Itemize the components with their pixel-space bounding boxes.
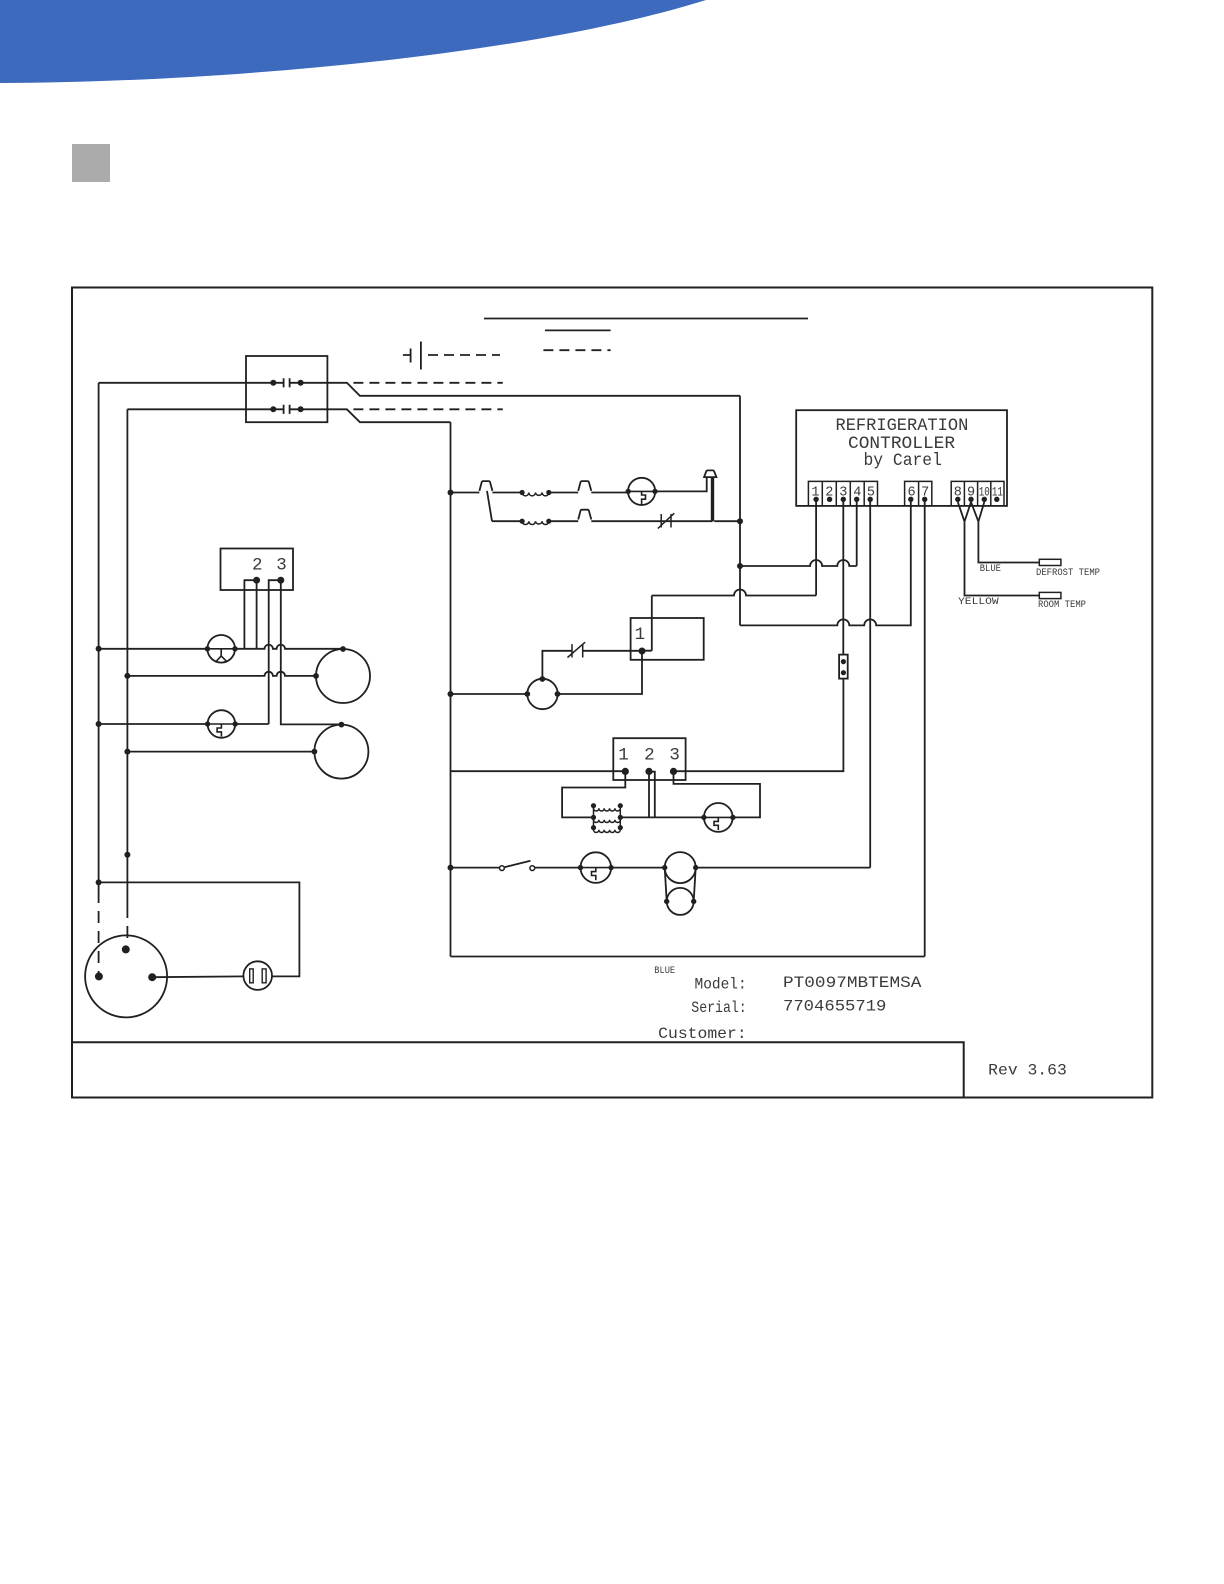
wire pin 9 to sensor V right: [971, 502, 978, 522]
wire from terminal 2 left jog: [244, 580, 256, 649]
wire coil box to pin 1 with hop: [652, 590, 816, 596]
evaporator fan motor circle: [316, 649, 370, 703]
node L1 buzzer tap: [96, 879, 102, 885]
wire pin 7 riser top: [924, 499, 926, 506]
node klixon 3 left: [701, 815, 706, 820]
bus L2 left vertical: [126, 409, 128, 906]
node compressor run left: [662, 865, 667, 870]
dashed generator line 2: [353, 408, 502, 410]
node contact K2 left: [270, 406, 276, 412]
svg-text:by Carel: by Carel: [864, 451, 942, 471]
svg-text:2: 2: [825, 485, 833, 500]
svg-text:Serial:: Serial:: [691, 999, 746, 1017]
svg-text:7704655719: 7704655719: [783, 997, 886, 1015]
bus vertical right: [739, 396, 741, 626]
svg-text:3: 3: [839, 485, 847, 500]
wire block terminal 1 to transformer: [562, 771, 625, 817]
wire blue sensor run: [978, 522, 1039, 563]
node xfmr mid left: [591, 815, 596, 820]
svg-text:BLUE: BLUE: [980, 564, 1001, 575]
node plug prong left: [95, 972, 103, 980]
service switch pole right: [530, 866, 535, 871]
svg-text:Model:: Model:: [695, 975, 747, 993]
svg-text:PT0097MBTEMSA: PT0097MBTEMSA: [783, 974, 922, 992]
node xfmr top right: [618, 803, 623, 808]
node L2 fan1 tap: [124, 673, 130, 679]
klixon 2 internal symbol: [581, 868, 610, 881]
node rung 2 bus junction: [737, 518, 743, 524]
node L2 cord joint: [124, 852, 130, 858]
wire defrost thermostat to NC contact: [583, 650, 642, 652]
terminal clip F3: [578, 510, 591, 520]
node xfmr bottom right: [618, 825, 623, 830]
klixon 1 internal symbol: [208, 724, 234, 737]
node coil terminal: [639, 648, 646, 655]
klixon protector circle 2: [581, 852, 612, 883]
wire from terminal 3 down to fan 2: [281, 580, 342, 724]
node pin 5: [868, 497, 873, 502]
wire bus to pin 6 with hops: [740, 499, 911, 625]
svg-text:1: 1: [635, 625, 646, 645]
refrigeration controller box: [796, 410, 1007, 506]
svg-text:1: 1: [618, 746, 629, 766]
wire klixon 1 to terminal 3 riser: [235, 723, 269, 725]
defrost termination contact NC: [658, 513, 675, 528]
wire block terminal 3 to klixon 3: [674, 771, 761, 817]
node klixon 2 left: [578, 865, 583, 870]
header swoosh: [0, 0, 706, 83]
node pin 1: [813, 497, 818, 502]
service switch blade: [504, 861, 530, 868]
wire pin 5 riser with hop: [869, 499, 871, 867]
wire motor F to plug: [655, 478, 707, 492]
klixon protector circle 1: [208, 710, 236, 738]
contact NC defrost: [568, 642, 586, 657]
inductor coil rung 2: [522, 521, 549, 524]
svg-text:11: 11: [992, 484, 1003, 499]
compressor start circle: [667, 888, 694, 915]
svg-text:DEFROST TEMP: DEFROST TEMP: [1036, 568, 1100, 579]
wire start winding right link: [694, 868, 696, 902]
overload protector circle: [207, 635, 235, 663]
node klixon 1 right: [233, 721, 238, 726]
compressor motor run circle: [665, 852, 696, 883]
wire pin 1 riser: [815, 499, 817, 595]
wire fuse to terminal3 of block: [674, 679, 844, 772]
node L2 fan2 tap: [124, 749, 130, 755]
wire clip 3 to defrost contact: [591, 520, 712, 522]
node compressor start left: [664, 899, 669, 904]
svg-text:Customer:: Customer:: [658, 1025, 747, 1043]
contact K1 upper: [273, 378, 300, 387]
top reference line short: [545, 329, 611, 331]
bus L1 dashed cord segment: [98, 891, 100, 973]
node compressor run right: [693, 865, 698, 870]
node plug prong top: [122, 945, 130, 953]
node coil 2 right: [546, 519, 551, 524]
room temp sensor body: [1039, 592, 1061, 598]
fuse node lower: [841, 670, 846, 675]
contact K2 lower: [273, 405, 300, 414]
svg-text:5: 5: [867, 485, 875, 500]
wire transformer to klixon 3: [620, 816, 704, 818]
wire L1 bus to overload: [99, 648, 208, 650]
wire pin 10 to sensor V: [978, 502, 984, 522]
wire block terminal 2 down: [648, 771, 650, 817]
node motor F right: [652, 489, 657, 494]
svg-text:ROOM TEMP: ROOM TEMP: [1038, 600, 1086, 611]
node pin 6: [908, 497, 913, 502]
wire pin 3 riser: [842, 499, 844, 654]
node klixon 1 left: [205, 721, 210, 726]
node overload right: [232, 646, 237, 651]
dashed field wiring line top right: [543, 349, 610, 351]
node block terminal 1: [622, 768, 629, 775]
bus L2 dashed cord segment: [126, 906, 128, 946]
node thermostat top: [540, 676, 546, 682]
node contact K2 right: [298, 406, 304, 412]
node xfmr top left: [591, 803, 596, 808]
dashed cord line: [428, 354, 500, 356]
dashed generator line 1: [353, 382, 502, 384]
node coil 2 left: [520, 519, 525, 524]
wire contact K2 to inner loop: [301, 409, 451, 422]
node xfmr bottom left: [591, 825, 596, 830]
inner loop right edge terminal 7 riser: [924, 506, 926, 957]
node fan 1 top: [340, 646, 346, 652]
wire coil to clip 2: [549, 492, 578, 494]
wire clip 2 to fan motor F: [591, 492, 628, 494]
terminal clip F1: [479, 481, 492, 491]
node bus 566 junction: [737, 563, 743, 569]
node pin 11: [994, 497, 999, 502]
wire L2 bus to fan 1 with hops: [127, 672, 316, 676]
wire compressor to pin 5 riser: [696, 867, 871, 869]
fuse indicator on pin 3 line: [839, 655, 848, 679]
title block divider: [72, 1042, 964, 1097]
buzzer element right: [262, 969, 266, 983]
node terminal 2: [253, 577, 260, 584]
klixon 3 internal symbol: [705, 817, 732, 830]
wire L2 to transfer switch: [127, 408, 273, 410]
svg-text:8: 8: [954, 485, 962, 500]
terminal box 2-3: [221, 549, 294, 591]
transfer switch box: [246, 356, 327, 422]
node pin 8: [955, 497, 960, 502]
svg-text:YELLOW: YELLOW: [958, 597, 999, 608]
node terminal 3: [277, 577, 284, 584]
wire L1 bus to klixon 1: [99, 723, 208, 725]
power cord plug symbol: [403, 342, 421, 370]
node coil 1 left: [520, 490, 525, 495]
node compressor rung tap: [448, 865, 454, 871]
node xfmr mid right: [618, 815, 623, 820]
wire rung 1 start: [451, 492, 480, 494]
wire coil riser to box: [642, 596, 652, 651]
border frame: [72, 288, 1152, 1098]
terminal strip cells 8-11: [951, 481, 1004, 506]
plug blade thick bar: [711, 477, 714, 521]
contactor coil box 1: [631, 618, 704, 660]
node compressor start right: [691, 899, 696, 904]
defrost thermostat circle: [527, 679, 557, 709]
wire coil terminal down to thermostat: [558, 651, 643, 694]
svg-text:9: 9: [967, 485, 975, 500]
service switch pole left: [500, 866, 505, 871]
buzzer circle: [243, 961, 272, 990]
inductor coil rung 1: [522, 493, 549, 496]
wire pin 8 to sensor V: [958, 502, 965, 522]
node rung 1 tap: [448, 490, 454, 496]
wire coil 2 to clip 3: [549, 520, 578, 522]
gray square: [72, 144, 110, 182]
node contact K1 right: [298, 380, 304, 386]
node motor F left: [626, 489, 631, 494]
node thermostat right: [555, 691, 561, 697]
svg-text:6: 6: [908, 485, 916, 500]
plug cap symbol: [704, 470, 716, 477]
wire from terminal 3 left jog: [269, 580, 281, 724]
buzzer element left: [250, 969, 254, 983]
overload internal symbol: [208, 649, 235, 662]
node coil 1 right: [546, 490, 551, 495]
pump motor internal F: [629, 491, 655, 504]
node thermostat left: [524, 691, 530, 697]
svg-text:7: 7: [921, 485, 929, 500]
svg-text:2: 2: [252, 556, 263, 576]
wire yellow sensor run: [965, 522, 1040, 596]
node plug prong right: [148, 973, 156, 981]
node L1 overload tap: [96, 646, 102, 652]
wire inner loop to thermostat: [451, 693, 528, 695]
top reference line: [484, 318, 808, 320]
node pin 9: [968, 497, 973, 502]
svg-text:1: 1: [811, 485, 819, 500]
node fan 2 left: [312, 749, 318, 755]
node fan 1 left: [313, 673, 319, 679]
svg-text:3: 3: [669, 746, 680, 766]
wire L1 to transfer switch: [99, 382, 274, 384]
inner loop left edge: [450, 422, 452, 956]
condenser fan motor circle: [314, 725, 368, 779]
node overload left: [205, 646, 210, 651]
wire L2 bus to fan 2: [127, 751, 314, 753]
node pin 3: [841, 497, 846, 502]
wire contact K1 to run: [301, 383, 740, 396]
inner loop bottom edge: [451, 956, 925, 958]
wire rung 2: [492, 520, 522, 522]
power plug circle: [85, 935, 167, 1017]
wire overload to fan 1 top with hops: [235, 645, 343, 649]
node klixon 2 right: [608, 865, 613, 870]
node fan 2 top: [339, 722, 345, 728]
node block terminal 3: [670, 768, 677, 775]
svg-text:4: 4: [853, 485, 861, 500]
pump motor circle F: [628, 478, 655, 505]
klixon protector circle 3: [704, 803, 733, 832]
node pin 2: [827, 497, 832, 502]
svg-text:10: 10: [979, 484, 990, 499]
transformer right terminals: [619, 806, 621, 828]
wire rung 1 to coil: [492, 492, 522, 494]
wire buzzer loop: [99, 882, 300, 976]
terminal block 1-2-3 box: [613, 738, 685, 780]
node L1 klixon tap: [96, 721, 102, 727]
transformer left terminals: [593, 806, 595, 828]
node klixon 3 right: [730, 815, 735, 820]
wire inner loop to block terminal 1: [451, 770, 626, 772]
wire from terminal 2 down: [256, 580, 258, 649]
wire plug to buzzer: [152, 975, 243, 978]
wire switch to klixon 2: [535, 867, 581, 869]
terminal clip F2: [578, 481, 591, 491]
terminal strip cells 1-5: [808, 481, 877, 506]
wire NC contact left to thermostat top: [542, 651, 572, 679]
wire block terminal 2 jog down: [649, 772, 655, 818]
svg-text:2: 2: [644, 746, 655, 766]
fuse node upper: [841, 659, 846, 664]
bus L1 left vertical: [98, 383, 100, 891]
terminal strip cells 6-7: [905, 481, 932, 506]
wire tap diagonal to rung 2: [487, 491, 492, 521]
wire rung to switch: [451, 867, 500, 869]
node inner loop thermostat tap: [448, 691, 454, 697]
node pin 10: [982, 497, 987, 502]
wire klixon 2 to compressor: [611, 867, 665, 869]
node block terminal 2: [645, 768, 652, 775]
wire plug to bus: [714, 520, 740, 522]
node pin 7: [922, 497, 927, 502]
wire pin 9 to sensor V left: [965, 502, 972, 522]
svg-text:3: 3: [276, 556, 287, 576]
transformer windings: [594, 808, 621, 832]
node pin 4: [854, 497, 859, 502]
wire pin 4 riser and run with hops: [740, 499, 857, 566]
node contact K1 left: [270, 380, 276, 386]
svg-text:BLUE: BLUE: [654, 966, 675, 977]
wire start winding left link: [665, 868, 667, 902]
svg-text:Rev 3.63: Rev 3.63: [988, 1062, 1067, 1080]
defrost temp sensor body: [1039, 559, 1061, 565]
